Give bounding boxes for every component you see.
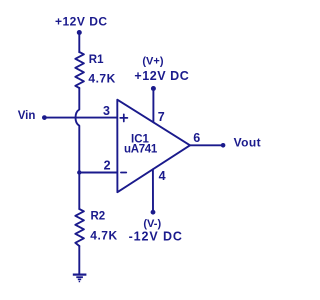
plus input marker — [120, 114, 127, 121]
wire pin 7 to V+ — [152, 91, 154, 122]
wire pin 6 to Vout — [190, 144, 221, 146]
terminal dot +12V — [77, 30, 82, 35]
terminal dot V+ — [151, 86, 156, 91]
svg-text:(V+): (V+) — [142, 56, 163, 68]
terminal dot V- — [151, 210, 156, 215]
ground — [73, 275, 87, 282]
svg-text:2: 2 — [104, 158, 111, 172]
wire pin 4 to V- — [152, 169, 154, 210]
wire Vin to pin 3 — [47, 117, 118, 119]
svg-text:R2: R2 — [91, 211, 106, 223]
resistor R2 — [75, 209, 84, 246]
terminal dot Vin — [42, 115, 47, 120]
op-amp U1 triangle — [117, 100, 190, 193]
minus input marker — [121, 172, 126, 174]
svg-text:3: 3 — [103, 104, 110, 118]
svg-text:(V-): (V-) — [143, 218, 161, 230]
resistor R1 — [75, 52, 84, 88]
terminal dot Vout — [221, 143, 226, 148]
svg-text:6: 6 — [193, 131, 200, 145]
svg-text:uA741: uA741 — [124, 143, 158, 155]
svg-text:+12V DC: +12V DC — [134, 69, 189, 83]
svg-text:4: 4 — [159, 169, 166, 183]
wire +12V to R1 — [78, 35, 80, 53]
wire R2 to ground — [78, 246, 80, 274]
svg-text:4.7K: 4.7K — [90, 229, 117, 243]
svg-text:Vin: Vin — [18, 110, 36, 122]
wire R1 to junction with hop over Vin wire — [76, 88, 80, 173]
svg-text:7: 7 — [158, 110, 165, 124]
svg-text:+12V DC: +12V DC — [55, 15, 108, 29]
node junction R1/R2/pin2 — [77, 170, 81, 174]
svg-text:4.7K: 4.7K — [88, 71, 115, 85]
wire junction to R2 — [78, 173, 80, 210]
svg-text:-12V DC: -12V DC — [129, 230, 183, 244]
svg-text:R1: R1 — [89, 54, 104, 66]
svg-text:Vout: Vout — [234, 135, 261, 149]
wire junction to pin 2 — [79, 172, 117, 174]
